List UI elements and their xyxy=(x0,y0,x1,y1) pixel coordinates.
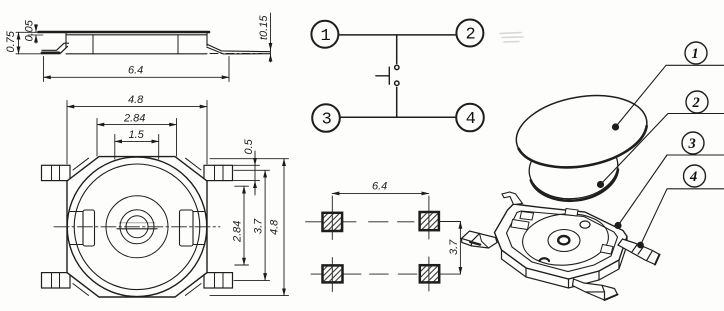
top view: dome circle xyxy=(106,196,168,258)
pin 2 terminal circle xyxy=(456,20,483,47)
exploded: rim notch top xyxy=(565,209,578,217)
wire pin3 to pin4 xyxy=(340,116,456,118)
svg-text:4: 4 xyxy=(689,169,697,185)
exploded: recess opening edge xyxy=(520,210,610,268)
svg-text:1: 1 xyxy=(321,27,331,46)
dimension 0.75 (left) xyxy=(16,32,43,54)
svg-text:4.8: 4.8 xyxy=(269,219,281,235)
wire pin1 to pin2 xyxy=(338,34,456,36)
side view: seating plane dash line xyxy=(210,53,262,55)
top view: corner step lines xyxy=(73,158,201,295)
svg-text:2.84: 2.84 xyxy=(123,113,145,125)
dimension 0.5 (right, lead width) xyxy=(234,165,260,180)
exploded: rim notch upper-left xyxy=(520,212,534,221)
top view: tab notch lines xyxy=(70,212,205,245)
svg-text:6.4: 6.4 xyxy=(372,181,387,193)
exploded: lead left xyxy=(471,234,497,249)
top view: octagonal body outline xyxy=(67,157,207,297)
svg-text:3.7: 3.7 xyxy=(253,218,265,234)
exploded: base plate outline (item 3) xyxy=(495,204,628,279)
exploded: rim notch bottom-right xyxy=(601,245,614,255)
svg-text:1.5: 1.5 xyxy=(129,129,145,141)
top view: actuator circle xyxy=(120,210,154,244)
svg-text:2: 2 xyxy=(466,26,476,45)
balloon 3 leader xyxy=(618,155,724,226)
scan smudge xyxy=(500,33,523,43)
switch contact top xyxy=(395,65,399,69)
svg-text:0.05: 0.05 xyxy=(24,19,36,41)
dimension 0.05 (cover step) xyxy=(28,34,43,36)
svg-text:0.5: 0.5 xyxy=(243,138,255,154)
exploded: cover film disc (item 1) xyxy=(511,86,653,177)
exploded: small hole top-right xyxy=(580,221,590,228)
top view: horizontal centerline xyxy=(54,226,220,228)
dimension 6.4 (side view width) xyxy=(44,57,230,82)
balloon 3 xyxy=(682,132,704,154)
land pattern: pad centerline vertical left xyxy=(331,196,333,292)
pin 4 terminal circle xyxy=(456,104,484,132)
land pattern: pad centerline horizontal bottom xyxy=(311,273,460,275)
side view: right gull-wing lead xyxy=(207,44,270,54)
top view: lead top-left xyxy=(42,165,71,180)
top view: lead bottom-left xyxy=(42,273,71,288)
switch contact bottom xyxy=(395,81,399,85)
top view: left side tab xyxy=(83,210,95,246)
side view: left gull-wing lead xyxy=(42,43,69,53)
wire switch to bottom xyxy=(396,87,398,117)
dimension 4.8 (top) xyxy=(67,101,207,165)
side view: body outline xyxy=(66,33,207,54)
switch actuator xyxy=(376,67,390,84)
svg-text:1: 1 xyxy=(692,46,699,62)
exploded: raised rim outer edge xyxy=(507,211,618,272)
side view: metal cover top line xyxy=(39,31,210,34)
pin 3 terminal circle xyxy=(312,104,340,132)
dimension 6.4 (land pattern) xyxy=(332,192,429,194)
svg-text:2.84: 2.84 xyxy=(232,221,244,243)
dimension 3.7 (right) xyxy=(234,170,270,280)
svg-text:4.8: 4.8 xyxy=(128,94,144,106)
svg-text:t0.15: t0.15 xyxy=(258,15,270,40)
top view: actuator inner circle xyxy=(126,216,148,238)
balloon 2 leader xyxy=(601,114,724,185)
dimension 2.84 (top) xyxy=(97,119,177,157)
svg-text:3: 3 xyxy=(322,111,332,130)
svg-text:4: 4 xyxy=(466,110,476,129)
balloon 4 leader xyxy=(641,189,724,245)
top view: lead bottom-right xyxy=(204,273,233,288)
exploded: small bump bottom-left xyxy=(540,258,550,261)
exploded: lead right xyxy=(618,239,660,265)
dimension 4.8 (right) xyxy=(210,159,289,296)
pin 1 terminal circle xyxy=(311,21,338,48)
exploded: center dome xyxy=(548,230,580,252)
svg-text:0.75: 0.75 xyxy=(5,30,17,52)
exploded: lead top tab xyxy=(502,192,523,205)
balloon 2 xyxy=(686,91,708,113)
side view: body divider lines xyxy=(93,35,178,54)
dimension 3.7 (land pattern) xyxy=(459,222,461,275)
top view: lead top-right xyxy=(204,165,233,180)
exploded: lead bottom xyxy=(573,279,618,300)
svg-text:6.4: 6.4 xyxy=(128,65,143,77)
dimension 1.5 (top) xyxy=(115,135,159,160)
land pad bottom-right xyxy=(420,265,439,282)
land pad top-left xyxy=(323,213,343,231)
land pad top-right xyxy=(420,212,439,230)
balloon 1 xyxy=(685,42,707,64)
exploded: rim notch left xyxy=(511,220,529,230)
land pattern: pad centerline vertical right xyxy=(428,196,430,291)
dimension t0.15 (right lead thickness) xyxy=(270,13,272,62)
land pattern: pad centerline horizontal top xyxy=(306,221,461,223)
svg-text:3.7: 3.7 xyxy=(448,239,460,255)
balloon 1 leader xyxy=(616,65,724,127)
top view: cover outer circle xyxy=(67,157,207,297)
land pad bottom-left xyxy=(323,265,343,282)
wire top to switch xyxy=(396,35,398,64)
top view: actuator slot lines xyxy=(117,228,157,230)
exploded: center contact button xyxy=(558,236,569,244)
top view: cover ring circle xyxy=(74,164,200,290)
svg-text:2: 2 xyxy=(692,95,700,111)
svg-text:3: 3 xyxy=(688,136,696,152)
exploded: base plate thickness xyxy=(502,237,628,289)
balloon 4 xyxy=(684,165,706,187)
dimension 2.84 (right) xyxy=(235,186,249,265)
exploded: contact disc (item 2) xyxy=(526,132,622,205)
top view: right side tab xyxy=(180,210,194,246)
